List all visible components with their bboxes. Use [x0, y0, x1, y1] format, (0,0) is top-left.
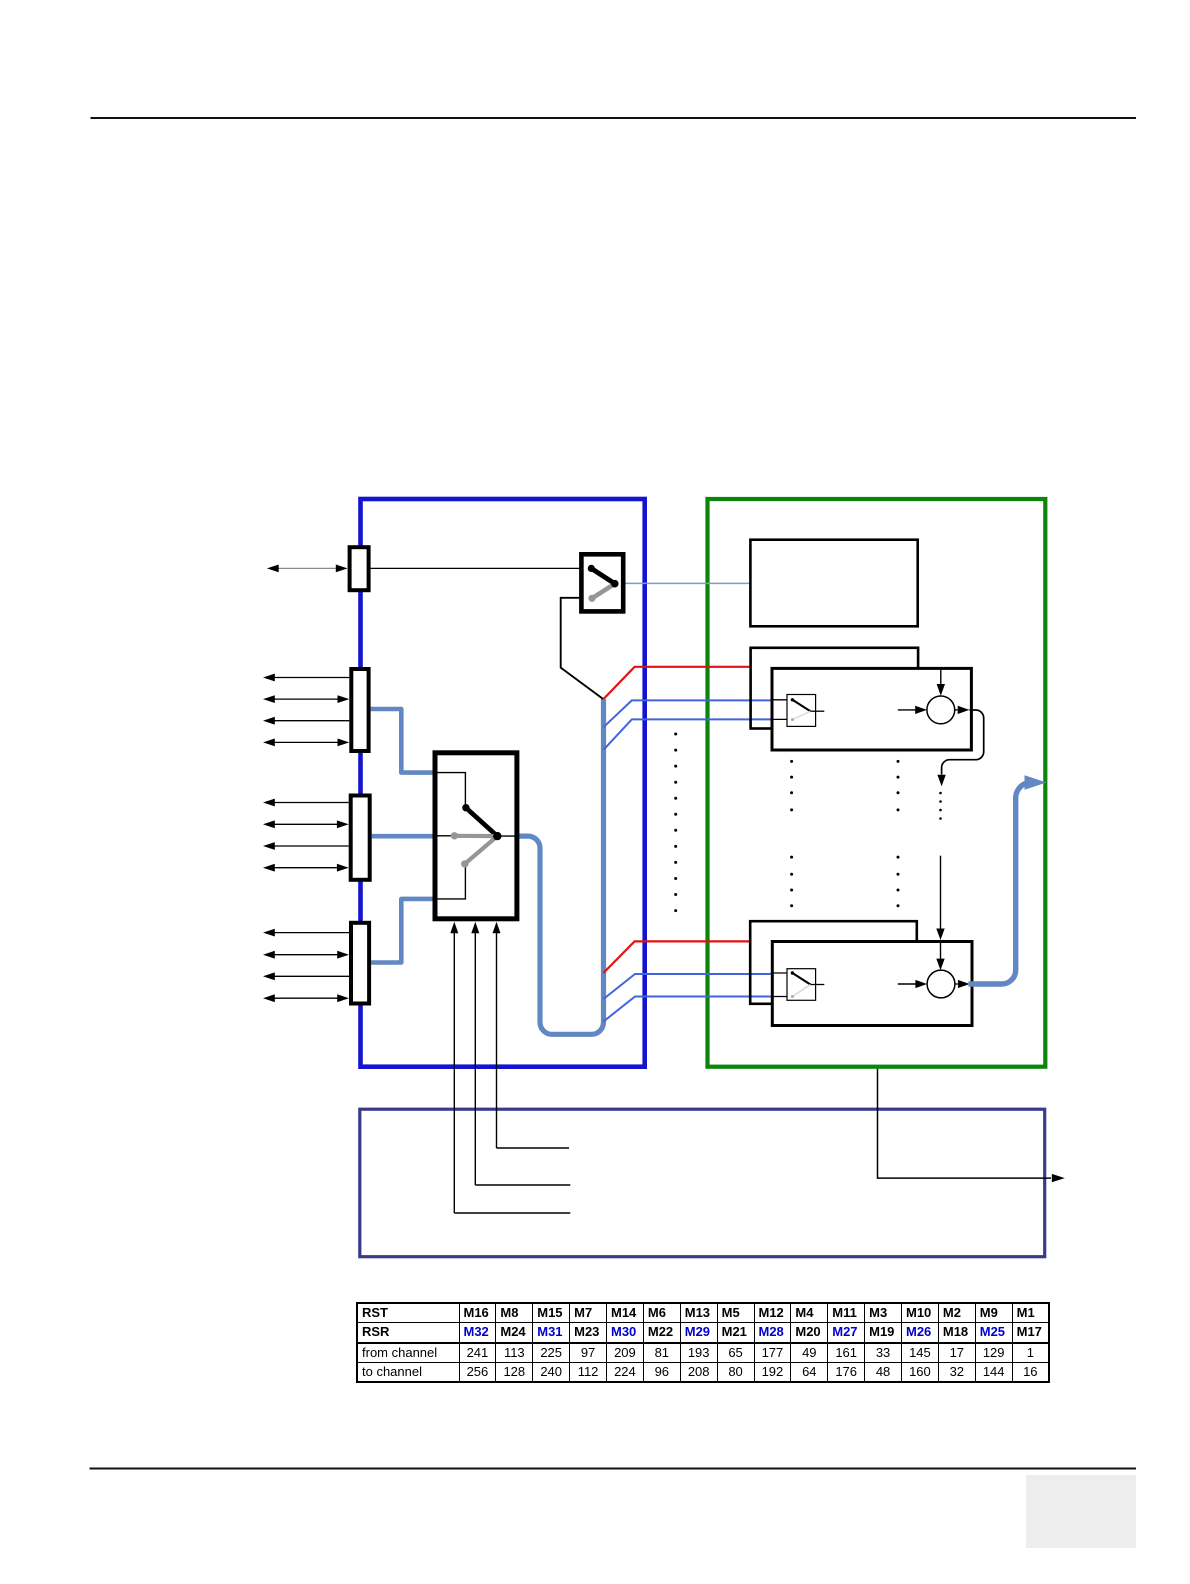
RX switch lever: [588, 565, 619, 602]
wire: chain arrow from above into lower block: [936, 856, 944, 970]
interface unit box (blue): [361, 499, 645, 1067]
wire: arrow into upper summer (left): [898, 706, 927, 714]
wire: P2 line 4: [263, 864, 349, 872]
port P2 connector: [351, 796, 370, 880]
wire: P3 line 2: [263, 951, 349, 959]
wire: P2 line 3: [263, 842, 349, 850]
matrix selector lever: [451, 804, 502, 868]
port P3 connector: [351, 923, 369, 1004]
bottom rule: [90, 1468, 1137, 1470]
wire: arrow into upper summer (top): [937, 668, 945, 695]
wire: P3 line 1: [263, 929, 349, 937]
processing unit box (green): [708, 499, 1046, 1067]
wire: lower switch output stub: [810, 984, 824, 986]
port P1 connector: [351, 669, 368, 751]
control unit box (navy): [360, 1109, 1045, 1257]
wire: P0 to RX switch: [371, 567, 590, 569]
wire: steel U path from matrix output: [519, 699, 603, 1034]
wire: upper stub 1: [771, 699, 788, 701]
wire: steel output to green box edge: [969, 775, 1047, 984]
wire: P3 line 3: [263, 972, 349, 980]
wire: upper output S-curve down: [937, 710, 983, 786]
lower channel back box: [750, 921, 917, 1004]
upper channel summer: [927, 696, 955, 724]
wire: steel line connector C1 to matrix: [371, 709, 434, 773]
wire: select line 2 from control unit: [471, 922, 570, 1185]
wire: lower stub 1: [771, 972, 787, 974]
wire: matrix output stub: [497, 835, 517, 837]
channel assignment table: [356, 1302, 1050, 1383]
wire: P0 bidirectional arrow: [267, 565, 348, 573]
decoder box (top right): [750, 540, 917, 627]
wire: lower summer output arrow: [955, 980, 970, 988]
wire: steel line connector C3 to matrix: [371, 899, 434, 963]
wire: P1 line 1: [263, 674, 349, 682]
lower channel summer: [927, 970, 955, 998]
wire: P3 line 4: [263, 994, 349, 1002]
wire: blue line 1 to upper channel: [604, 700, 771, 727]
port P0 connector: [350, 547, 369, 590]
wire: P2 line 2: [263, 820, 349, 828]
wire: blue line 2 to lower channel: [604, 997, 771, 1022]
page number box: [1026, 1475, 1136, 1548]
wire: red line to upper channel: [603, 667, 750, 699]
wire: matrix internal top: [437, 773, 465, 805]
wire: upper summer output arrow: [955, 706, 970, 714]
wire: green box to control unit and out: [878, 1069, 1065, 1183]
wire: red line to lower channel: [604, 941, 751, 973]
wire: matrix internal mid: [437, 835, 453, 837]
wire: lower stub 2: [771, 996, 787, 998]
upper channel input switch: [787, 695, 816, 727]
lower channel input switch: [787, 969, 816, 1001]
wire: P2 line 1: [263, 799, 349, 807]
wire: select line 1 from control unit: [450, 922, 570, 1213]
lower channel front box: [772, 942, 972, 1026]
dotted column in blue box: [674, 733, 677, 913]
dotted column B: [790, 760, 793, 907]
wire: select line 3 from control unit: [493, 922, 570, 1148]
wire: black path from RX switch to junction: [561, 598, 604, 699]
wire: P1 line 4: [263, 739, 349, 747]
wire: blue line 1 to lower channel: [604, 974, 771, 999]
wire: arrow into lower summer (left): [898, 980, 927, 988]
wire: upper stub 2: [771, 718, 788, 720]
dotted column D (chain): [939, 792, 942, 820]
dotted column C: [897, 760, 900, 907]
RX switch box: [581, 554, 623, 611]
wire: upper switch output stub: [810, 710, 824, 712]
wire: thin steel line RX switch to decoder: [616, 582, 750, 584]
wire: P1 line 2: [263, 695, 349, 703]
upper channel back box: [751, 648, 919, 729]
wire: blue line 2 to upper channel: [604, 719, 771, 749]
top rule: [91, 117, 1137, 119]
wire: matrix internal bottom: [437, 867, 465, 899]
wire: P1 line 3: [263, 717, 349, 725]
crosspoint matrix box: [435, 753, 517, 919]
upper channel front box: [772, 668, 971, 750]
wire: steel line connector C2 to matrix: [372, 834, 434, 839]
